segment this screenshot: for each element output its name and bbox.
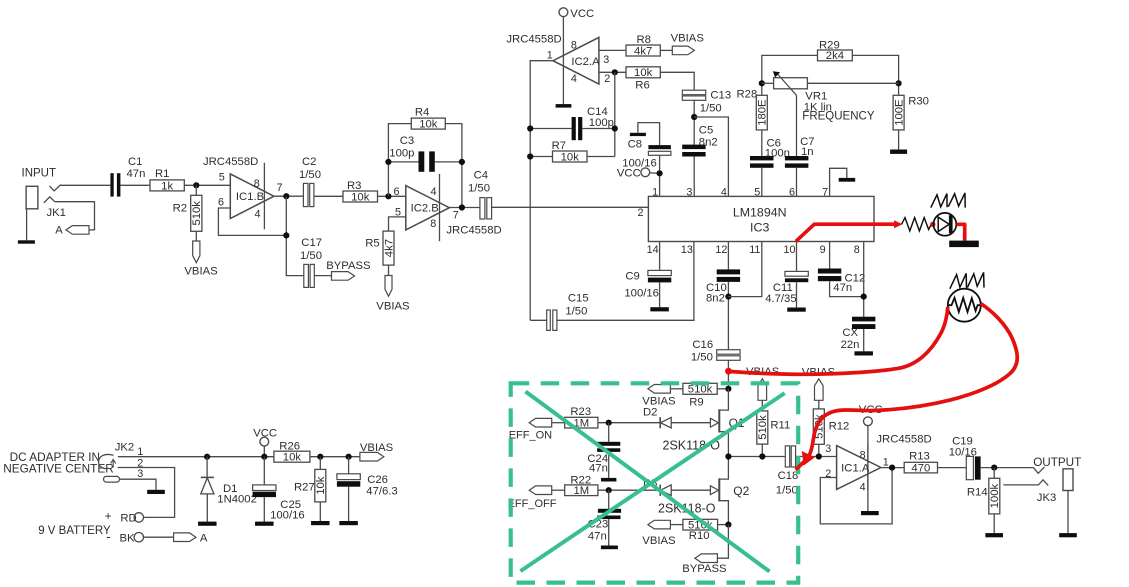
wire to C24 [608,423,610,442]
svg-text:JK2: JK2 [115,442,134,454]
wire BK to A [143,536,173,538]
wire Q node to C18 [728,456,785,458]
resistor R6 [626,67,660,78]
wire IC3 pin7 to ground [830,168,847,196]
wire JK2 pin3 to ground [120,479,157,490]
svg-text:100p: 100p [589,117,614,129]
svg-text:8n2: 8n2 [706,293,725,305]
svg-text:1/50: 1/50 [468,183,490,195]
capacitor C13 [682,90,705,95]
svg-text:IC1.B: IC1.B [236,191,264,203]
net arrow BYPASS [695,554,718,563]
svg-text:8: 8 [860,449,866,461]
wire pin8 down to CX [863,242,865,317]
svg-text:7: 7 [453,209,459,221]
junction IC1.B out [283,193,289,199]
wire IC1.A feedback [820,468,892,524]
wire C2 to R3 [314,195,343,197]
svg-text:R28: R28 [737,88,758,100]
svg-text:NEGATIVE CENTER: NEGATIVE CENTER [3,461,114,475]
svg-text:2k4: 2k4 [826,50,844,62]
svg-text:INPUT: INPUT [22,167,57,179]
svg-text:R10: R10 [689,530,710,542]
wire to pin11 [728,242,761,297]
svg-text:4: 4 [430,186,436,198]
wire JK3 to ground [1067,491,1069,534]
svg-text:4: 4 [721,186,727,198]
wire rail to D1 [206,457,208,478]
red node dot (C16) [725,368,732,375]
junction VCC/C25 [261,454,267,460]
svg-text:3: 3 [137,468,143,480]
svg-text:4k7: 4k7 [634,45,652,57]
output jack JK3 [1033,467,1044,473]
wire VR1 wiper to C7 [796,95,798,156]
diode D3 [659,485,661,496]
op-amp IC2.A [553,37,599,84]
junction C26 [346,454,352,460]
light rays scribble (photoresistor) [950,273,967,288]
junction R11 [759,453,765,459]
svg-text:1M: 1M [573,485,589,497]
wire R1 to IC1.B pin5 [184,184,230,186]
junction pin2 node [612,69,618,75]
junction C4 node [459,204,465,210]
wire R14 to ground [993,514,995,533]
wire JK1 sleeve to ground [26,209,28,241]
svg-text:C4: C4 [474,169,488,181]
capacitor C2 [303,183,308,206]
svg-text:4: 4 [571,73,577,85]
wire VCC through IC2.A [562,17,564,105]
wire pin10 to C11 [796,242,798,272]
resistor R14 [989,478,1000,514]
junction Q1/Q2 [725,453,731,459]
wire C12 to pin8 node [830,281,864,296]
svg-text:47n: 47n [127,168,146,180]
wire IC2.A out down [530,61,553,321]
light rays scribble (LED) [931,194,947,208]
net arrow BYPASS (C17) [332,272,355,281]
svg-text:1/50: 1/50 [300,250,322,262]
svg-text:4k7: 4k7 [383,239,395,257]
wire C18 to IC1.A pin3 [796,456,837,458]
capacitor C6 [750,156,774,160]
svg-text:100/16: 100/16 [270,509,305,521]
ground (C25) [255,522,273,526]
svg-text:1n: 1n [801,146,814,158]
svg-text:IC2.A: IC2.A [571,56,600,68]
resistor R11 [757,411,768,444]
junction pin8/CX [861,294,867,300]
svg-text:VBIAS: VBIAS [360,442,394,454]
VCC symbol (C8) [641,168,650,177]
crossed-out bypass section box [511,383,799,582]
svg-text:FREQUENCY: FREQUENCY [802,111,875,123]
wire VBIAS to R12 [818,400,820,409]
resistor R1 [150,180,184,191]
wire IC1.B out to C2 [274,195,304,197]
capacitor C3 [419,151,425,171]
svg-text:EFF_OFF: EFF_OFF [508,498,557,510]
wire C7 to IC3 pin6 [796,168,798,197]
wire R30 to ground [898,130,900,150]
wire C17 to BYPASS [314,275,331,277]
wire R11 down [761,444,763,456]
ground (JK3) [1059,533,1077,537]
svg-text:1/50: 1/50 [776,485,798,497]
ground (LED, annotation) [949,241,979,248]
wire C23 to ground [608,519,610,545]
junction R22/C23 [606,487,612,493]
wire C14 right [582,128,615,130]
ground (JK2) [147,490,165,494]
svg-text:R8: R8 [637,34,651,46]
wire C24 to ground [608,452,610,478]
wire JK1 ring to A [55,202,94,230]
svg-text:R3: R3 [347,180,361,192]
wire pin13 to C15 [557,242,694,321]
svg-text:CX: CX [842,327,858,339]
wire R27 to ground [319,502,321,521]
junction R10/Q2 [725,522,731,528]
capacitor C4 [480,198,485,219]
hand-drawn resistor (annotation) [902,218,932,231]
svg-text:8n2: 8n2 [699,136,718,148]
capacitor C16 [717,350,740,355]
svg-text:A: A [55,225,63,237]
svg-text:C2: C2 [302,156,316,168]
wire C26 to ground [348,487,350,521]
capacitor C5 [682,145,705,150]
wire C6 to IC3 pin5 [761,168,763,197]
svg-text:BYPASS: BYPASS [326,260,371,272]
net arrow VBIAS (R2) [193,241,200,263]
junction C14 left [527,125,533,131]
svg-text:5: 5 [219,172,225,184]
svg-text:IC2.B: IC2.B [411,203,439,215]
capacitor C12 [818,269,841,274]
wire C9 to ground [659,282,661,307]
red wire (C16 node to photoresistor) [729,307,948,374]
svg-text:9: 9 [820,244,826,256]
net arrow A (battery) [174,533,196,542]
wire pin5 to R5 [389,217,406,231]
wire to C23 [608,490,610,509]
svg-text:JRC4558D: JRC4558D [876,433,931,445]
svg-text:470: 470 [911,462,930,474]
resistor R27 [315,469,326,502]
cross line 2 [520,393,784,571]
wire R3 to IC2.B pin6 [378,195,406,197]
junction R27 [317,454,323,460]
svg-text:5: 5 [754,186,760,198]
wire R13 to C19 [938,467,967,469]
svg-text:47/6.3: 47/6.3 [366,485,397,497]
svg-text:510k: 510k [757,415,769,440]
ground (R14) [985,533,1003,537]
capacitor C15 [547,310,551,330]
svg-text:R7: R7 [552,140,566,152]
capacitor C11 [785,271,808,276]
ground (C26) [339,521,358,525]
svg-text:VBIAS: VBIAS [376,300,410,312]
transistor Q2 [718,478,720,501]
svg-text:22n: 22n [841,339,860,351]
resistor R23 [565,417,598,428]
svg-text:VBIAS: VBIAS [184,266,218,278]
svg-text:R11: R11 [770,420,790,432]
ground (CX) [854,351,873,355]
junction feedback [283,232,289,238]
capacitor C9 [648,270,671,275]
svg-text:14: 14 [647,244,659,256]
svg-text:1: 1 [883,457,889,469]
svg-text:JRC4558D: JRC4558D [446,225,501,237]
wire rail to C25 [263,457,265,485]
junction IC1.A out [889,465,895,471]
wire JK2 pin1 rail [118,456,274,458]
svg-text:180E: 180E [757,99,769,126]
resistor R5 [383,231,394,265]
wire to R27 [319,457,321,470]
battery terminal RD [134,513,143,522]
svg-text:R12: R12 [829,421,850,433]
wire C3 to right leg [435,161,462,163]
svg-text:C18: C18 [778,470,799,482]
junction D1 [204,454,210,460]
svg-text:C1: C1 [128,156,142,168]
svg-text:8: 8 [254,178,260,190]
wire pin2 node down [614,72,616,156]
resistor R3 [343,191,378,202]
svg-text:4.7/35: 4.7/35 [765,293,796,305]
svg-text:6: 6 [218,196,224,208]
ground (D1) [198,522,217,526]
svg-text:OUTPUT: OUTPUT [1033,456,1081,469]
svg-text:R13: R13 [909,451,930,463]
junction C10/pin11 [725,294,731,300]
svg-text:D2: D2 [643,406,657,418]
wire R23 to D2 [598,422,660,424]
net arrow VBIAS (R12) [815,379,824,401]
wire to R2 [195,185,197,195]
junction C3 left [385,159,391,165]
svg-text:13: 13 [681,244,693,256]
svg-text:7: 7 [822,186,828,198]
junction R7 left [527,153,533,159]
wire CX to ground [863,329,865,351]
battery terminal BK [134,533,143,542]
svg-text:510k: 510k [688,384,713,396]
op-amp IC2.B [439,174,441,241]
wire C19 to output jack [981,467,1034,469]
svg-text:6: 6 [789,186,795,198]
svg-text:JK1: JK1 [47,207,66,219]
svg-text:IC1.A: IC1.A [841,463,870,475]
net arrow VBIAS (supply) [360,452,384,461]
svg-text:2: 2 [604,73,610,85]
wire R7 right [587,156,615,158]
resistor R8 [626,45,660,56]
wire R29 left down [762,55,818,95]
red wire (photoresistor to C18) [809,304,1017,457]
svg-text:1: 1 [547,50,553,62]
wire R4 to output node [445,124,462,208]
svg-text:C8: C8 [628,138,642,150]
svg-text:12: 12 [715,244,727,256]
svg-text:R23: R23 [570,406,591,418]
svg-text:JRC4558D: JRC4558D [203,156,258,168]
capacitor C10 [717,269,740,274]
svg-text:C5: C5 [699,124,713,136]
svg-text:8: 8 [854,244,860,256]
LED (annotation) [934,213,957,236]
svg-text:VBIAS: VBIAS [671,33,705,45]
junction VCC/pin1 [657,170,663,176]
svg-text:10k: 10k [315,476,327,495]
svg-text:2: 2 [825,468,831,480]
red wire (pin10 to LED) [796,224,896,241]
svg-text:1N4002: 1N4002 [217,493,257,505]
svg-text:1/50: 1/50 [565,306,587,318]
wire D1 to ground [206,494,208,522]
junction VR1 left [759,80,765,86]
junction R9/Q1 [725,386,731,392]
ground (C11) [787,308,806,312]
wire VR1 to R30 node [807,82,898,84]
capacitor C1 [110,173,113,196]
ground (IC2.A) [556,104,572,108]
svg-text:R27: R27 [294,482,315,494]
wire to C3 [388,161,418,163]
resistor R9 [683,383,717,394]
svg-text:10/16: 10/16 [949,446,977,458]
svg-text:VBIAS: VBIAS [642,535,676,547]
junction R3/C3 leg [385,193,391,199]
resistor R10 [683,519,718,530]
svg-text:47n: 47n [589,463,608,475]
svg-text:EFF_ON: EFF_ON [509,430,552,442]
wire pin2 to R6 [599,71,626,73]
svg-text:R9: R9 [689,397,703,409]
wire pin12 to C10 [727,242,729,270]
wire R5 to VBIAS [388,265,390,275]
VCC symbol (supply) [260,437,269,446]
svg-text:JK3: JK3 [1037,492,1056,504]
net arrow VBIAS (R8) [672,46,694,55]
op-amp IC1.B [263,163,265,230]
IC U3 LM1894N [648,196,874,241]
junction R14 [991,465,997,471]
svg-text:1/50: 1/50 [691,352,713,364]
resistor R2 [191,195,202,231]
svg-text:11: 11 [749,244,760,256]
svg-text:-: - [106,529,110,544]
wire VBIAS to R10 [670,524,683,526]
wire R28 to C6 [761,130,763,156]
wire D3 to Q2 gate [672,489,711,491]
wire VCC through IC1.A [867,426,869,511]
svg-text:R30: R30 [908,96,929,108]
wire to VR1 [762,82,774,84]
svg-text:VCC: VCC [617,167,641,179]
resistor R4 [411,118,445,129]
wire C10 down to C16 [727,282,729,350]
wire R12 down [818,444,820,456]
red arrowhead [894,220,903,228]
ground (R30) [890,150,907,154]
svg-text:100p: 100p [389,148,414,160]
wire R6 to C13 [660,72,694,90]
junction R1/R2 [193,182,199,188]
ground (C9) [650,307,669,311]
red wire (LED to ground) [957,224,965,240]
wire VCC to rail [263,446,265,457]
resistor R13 [904,462,937,473]
wire R2 to VBIAS [195,231,197,241]
svg-text:RD: RD [120,513,136,525]
ground (C24) [601,478,616,482]
wire VBIAS to R9 [670,388,683,390]
wire C8 to IC3 pin1 [659,155,661,196]
wire to BYPASS [717,525,728,559]
wire C11 to ground [796,282,798,307]
wire R10 to Q2 source [718,524,729,526]
svg-text:R6: R6 [635,80,649,92]
capacitor CX [852,317,875,322]
svg-text:10k: 10k [419,119,438,131]
net arrow VBIAS (R5) [385,276,392,297]
capacitor C8 [648,145,671,149]
svg-text:R5: R5 [365,237,379,249]
wire JK2 pin2 to RD [118,468,175,518]
svg-text:4: 4 [860,481,866,493]
JK2 pin3 contact [104,476,120,482]
wire pin3 to R8 [599,49,626,51]
wire IC1.A out to R13 [881,467,904,469]
capacitor C17 [304,264,309,287]
wire R29 right down [852,55,898,95]
junction C14 right [612,125,618,131]
svg-text:A: A [200,533,208,545]
capacitor C19 [966,456,973,479]
wire VBIAS to R11 [761,400,763,411]
resistor R22 [565,485,598,496]
svg-text:1/50: 1/50 [299,169,321,181]
capacitor C14 [572,117,576,140]
capacitor C25 [253,485,276,491]
svg-text:3: 3 [825,443,831,455]
wire R9 to Q1 drain [717,388,728,390]
ground (R27) [311,521,330,525]
svg-text:C9: C9 [625,270,639,282]
transistor Q1 [718,409,720,432]
wire C4 to IC3 pin2 [492,206,649,208]
capacitor C26 [337,474,360,480]
svg-text:R1: R1 [155,168,169,180]
junction R12/pin3 [816,453,822,459]
wire to C14 [530,128,571,130]
wire C5 to IC3 pin3 [693,157,695,197]
wire R22 to D3 [598,489,660,491]
ground (pin7) [839,178,856,182]
resistor R28 [756,95,767,130]
svg-text:1k: 1k [161,180,173,192]
wire VCC to pin1 node [650,172,660,174]
potentiometer VR1 [774,78,808,89]
input jack JK1 [26,186,38,209]
